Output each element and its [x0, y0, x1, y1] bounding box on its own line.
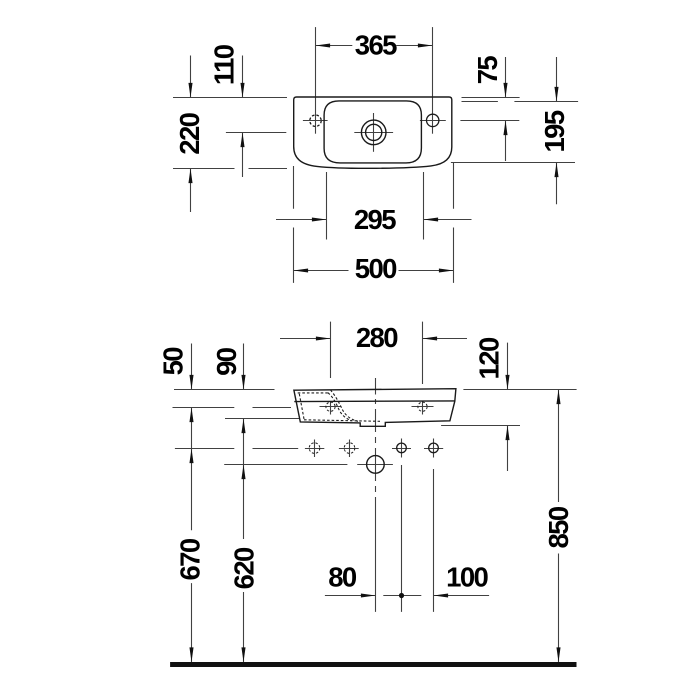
svg-text:120: 120	[474, 337, 505, 379]
svg-text:295: 295	[354, 204, 396, 235]
svg-text:850: 850	[543, 506, 574, 548]
svg-text:195: 195	[539, 110, 570, 152]
svg-text:80: 80	[328, 562, 357, 593]
svg-text:220: 220	[174, 112, 205, 154]
svg-text:500: 500	[355, 253, 397, 284]
svg-text:670: 670	[174, 538, 205, 580]
svg-text:620: 620	[228, 547, 259, 589]
svg-text:365: 365	[355, 29, 397, 60]
svg-text:50: 50	[158, 347, 189, 376]
svg-text:100: 100	[446, 562, 488, 593]
svg-text:75: 75	[472, 56, 503, 85]
svg-text:280: 280	[356, 322, 398, 353]
svg-text:90: 90	[211, 347, 242, 376]
svg-text:110: 110	[209, 44, 240, 85]
